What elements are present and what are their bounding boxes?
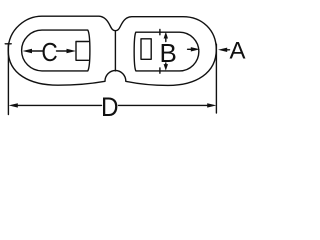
dimension B upper stem <box>165 38 167 42</box>
dimension C line right segment <box>57 50 68 52</box>
dimension C right arrowhead <box>67 49 77 53</box>
svg-text:B: B <box>160 38 177 68</box>
D right extension line <box>215 44 217 113</box>
dimension C left arrowhead <box>23 49 33 53</box>
left eye inner opening <box>22 30 90 71</box>
dimension D line right segment <box>119 104 208 106</box>
dimension C line left segment <box>31 50 43 52</box>
right eye inner opening <box>134 32 199 71</box>
right shank head rectangle <box>141 39 151 60</box>
dimension B lower stem <box>165 63 167 65</box>
svg-text:C: C <box>41 39 57 68</box>
dimension A outer stem <box>227 49 230 51</box>
dimension A outer arrowhead <box>218 48 227 52</box>
left shank head rectangle <box>76 42 89 61</box>
D left extension line <box>7 44 9 115</box>
dimension B top tick <box>159 30 161 35</box>
dimension D left arrowhead <box>9 103 18 107</box>
dimension B top arrowhead <box>164 32 168 39</box>
svg-text:A: A <box>229 37 245 64</box>
dimension D line left segment <box>18 104 102 106</box>
dimension D right arrowhead <box>207 103 216 107</box>
dimension A inner stem <box>188 48 192 50</box>
D left extension top tick <box>5 43 11 45</box>
center seam line between swivel halves <box>114 31 116 71</box>
svg-text:D: D <box>101 93 119 120</box>
dimension B bottom tick <box>159 68 161 73</box>
dimension B bottom arrowhead <box>164 64 168 71</box>
dimension A inner arrowhead <box>191 47 200 51</box>
outer silhouette of swivel body <box>8 16 216 85</box>
